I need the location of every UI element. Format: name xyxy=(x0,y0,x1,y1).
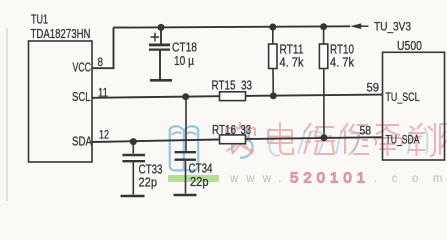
resistor RT11 xyxy=(269,27,277,96)
value label 4.7k (RT10) xyxy=(330,55,354,70)
svg-text:10 µ: 10 µ xyxy=(174,53,194,68)
svg-text:8: 8 xyxy=(98,57,104,69)
net label TU_3V3 xyxy=(374,20,411,34)
capacitor CT33 xyxy=(123,155,146,195)
svg-text:TU_3V3: TU_3V3 xyxy=(374,20,411,34)
svg-text:520101: 520101 xyxy=(290,170,370,187)
label RT16 33 xyxy=(212,122,251,137)
svg-text:22p: 22p xyxy=(190,174,209,189)
svg-text:33: 33 xyxy=(241,78,252,93)
pin number 8 xyxy=(98,57,104,69)
resistor RT15 xyxy=(220,92,246,101)
ground for CT34 xyxy=(174,194,197,197)
IC U500 box xyxy=(383,52,445,160)
node junction SCL / RT11 xyxy=(270,92,277,99)
capacitor CT33 branch wire from SDA junction xyxy=(132,142,134,154)
svg-text:22p: 22p xyxy=(139,175,158,190)
pin number 11 xyxy=(98,88,108,100)
watermark url www. xyxy=(229,173,289,185)
value label CT34 xyxy=(189,161,213,176)
svg-text:4. 7k: 4. 7k xyxy=(330,55,354,70)
watermark red character wei xyxy=(304,123,335,154)
svg-text:VCC: VCC xyxy=(73,60,92,75)
watermark blue swirl glyph xyxy=(232,128,253,158)
pin label TU_SDA xyxy=(386,133,420,147)
wire SCL from RT15 to U500 pin 59 xyxy=(246,95,383,96)
watermark green bar xyxy=(168,175,219,182)
resistor RT10 xyxy=(319,27,327,138)
node junction SDA / CT33 xyxy=(130,138,137,145)
svg-text:TU1: TU1 xyxy=(31,12,48,27)
svg-text:33: 33 xyxy=(241,122,252,137)
svg-text:12: 12 xyxy=(99,130,109,142)
svg-text:TU_SCL: TU_SCL xyxy=(386,90,420,104)
pin number 59 xyxy=(367,83,380,95)
value label 22p (CT33) xyxy=(139,175,158,190)
node junction CT18 on rail xyxy=(158,24,165,31)
watermark red character dian xyxy=(268,122,293,154)
label TDA18273HN xyxy=(31,26,91,41)
svg-text:www.: www. xyxy=(229,173,289,185)
pin number 12 xyxy=(99,130,109,142)
svg-text:RT16: RT16 xyxy=(212,122,236,137)
watermark url .com xyxy=(374,173,447,185)
pin label TU_SCL xyxy=(386,90,420,104)
svg-text:TDA18273HN: TDA18273HN xyxy=(31,26,91,41)
svg-text:4. 7k: 4. 7k xyxy=(280,55,304,70)
arrow TU_3V3 xyxy=(350,23,369,29)
node junction SDA / RT10 xyxy=(321,134,328,141)
watermark red character wang xyxy=(440,124,447,155)
wire VCC pin 8 to 3V3 rail xyxy=(92,28,114,69)
svg-text:SDA: SDA xyxy=(72,134,92,149)
wire SCL from TU1 to RT15 xyxy=(92,96,219,98)
pin label SCL xyxy=(72,89,91,104)
label U500 xyxy=(397,38,422,53)
value label CT18 xyxy=(172,40,197,55)
svg-text:U500: U500 xyxy=(397,38,422,53)
svg-text:58: 58 xyxy=(360,126,372,138)
value label 22p (CT34) xyxy=(190,174,209,189)
node junction RT10 on rail xyxy=(320,23,327,30)
watermark red character xiu xyxy=(341,123,369,154)
watermark red character jia xyxy=(226,122,255,154)
svg-text:TU_SDA: TU_SDA xyxy=(386,133,420,147)
capacitor CT18 (polarized) xyxy=(149,27,170,79)
value label 10 u xyxy=(174,53,194,68)
watermark url 520101 xyxy=(290,170,370,187)
pin number 58 xyxy=(360,126,372,138)
label TU1 xyxy=(31,12,48,27)
svg-text:.com: .com xyxy=(374,173,447,185)
watermark blue open-book logo xyxy=(170,126,198,170)
node junction RT11 on rail xyxy=(269,24,276,31)
value label CT33 xyxy=(139,162,163,177)
svg-text:59: 59 xyxy=(367,83,380,95)
IC TU1 box xyxy=(29,41,93,162)
watermark blue cursive accents xyxy=(269,128,428,156)
ground for CT18 xyxy=(150,79,172,82)
pin label VCC xyxy=(73,60,92,75)
capacitor CT34 branch wire from SCL junction xyxy=(185,97,187,151)
label RT15 33 xyxy=(212,78,253,93)
svg-text:RT15: RT15 xyxy=(212,78,236,93)
watermark red character liao xyxy=(408,123,435,156)
svg-text:SCL: SCL xyxy=(72,89,91,104)
label RT10 xyxy=(330,42,354,57)
node junction SCL / CT34 xyxy=(182,93,189,100)
wire SDA from TU1 to RT16 xyxy=(92,140,219,143)
capacitor CT34 xyxy=(175,152,197,193)
label RT11 xyxy=(280,42,304,57)
resistor RT16 xyxy=(220,135,246,144)
pin label SDA xyxy=(72,134,92,149)
ground for CT33 xyxy=(121,195,145,198)
wire 3V3 top rail xyxy=(113,26,350,27)
scan left border line xyxy=(6,28,8,201)
wire SDA from RT16 to U500 pin 58 xyxy=(246,137,383,139)
watermark red character zi xyxy=(374,125,403,156)
value label 4.7k (RT11) xyxy=(280,55,304,70)
